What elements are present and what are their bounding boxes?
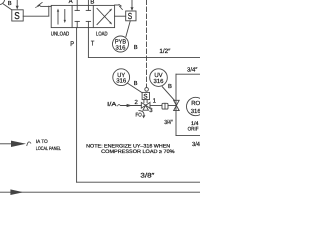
break squiggle (118, 104, 121, 105)
svg-text:B: B (90, 0, 94, 5)
3-way valve left triangle (141, 102, 145, 108)
block valve top triangle (174, 100, 180, 105)
instrument bubble top-left (cut off) (0, 0, 5, 5)
wire S1 to valve (23, 15, 49, 17)
instrument bubble RO-316 (187, 97, 205, 115)
wire UY to solenoid S3 (127, 83, 142, 93)
svg-text:3/4″: 3/4″ (187, 67, 198, 74)
svg-text:B: B (134, 45, 138, 51)
svg-text:RO: RO (191, 100, 200, 107)
center stub top-right (87, 5, 89, 10)
FO fail arrow arc (139, 111, 144, 116)
instrument bubble UV-316 (150, 69, 168, 87)
electric signal squiggle right (119, 4, 122, 9)
IA arrow (11, 141, 26, 147)
arrowhead down (16, 6, 19, 10)
break squiggle (27, 142, 31, 146)
svg-text:316: 316 (116, 44, 127, 51)
svg-text:3/4: 3/4 (192, 141, 200, 148)
svg-text:UV: UV (154, 72, 162, 79)
coupling / union (162, 103, 168, 109)
svg-text:1/2″: 1/2″ (159, 48, 171, 55)
wire valve to coupling (150, 105, 162, 107)
wire bubble to solenoid S left (3, 4, 12, 10)
svg-text:3/4″: 3/4″ (164, 119, 173, 126)
svg-text:2: 2 (135, 99, 139, 106)
svg-text:COMPRESSOR LOAD ≥ 70%: COMPRESSOR LOAD ≥ 70% (101, 149, 175, 155)
svg-text:1: 1 (153, 98, 157, 105)
solenoid S2 box (126, 11, 136, 21)
svg-text:3/8″: 3/8″ (140, 172, 155, 179)
svg-text:B: B (134, 81, 138, 87)
svg-text:I/A: I/A (107, 101, 116, 108)
svg-text:T: T (91, 41, 95, 48)
svg-text:316: 316 (191, 108, 200, 115)
bottom header line (0, 191, 200, 193)
3/8 pipe horizontal (77, 181, 200, 183)
svg-text:UNLOAD: UNLOAD (51, 31, 69, 37)
instrument bubble UY-316 (113, 69, 130, 86)
wire UV to block valve (162, 87, 175, 101)
instrument bubble PYB-316 (113, 36, 129, 52)
bottom header arrow (10, 189, 23, 195)
unload up-arrow (57, 11, 59, 25)
T pipe down (87, 28, 89, 58)
svg-text:A: A (69, 0, 73, 5)
svg-text:IA TO: IA TO (36, 139, 48, 145)
solenoid S1 box (12, 10, 23, 21)
svg-text:S: S (14, 11, 20, 22)
divider 1 (71, 5, 73, 27)
wire S2 to PYB bubble (126, 21, 130, 37)
signal line into solenoid S left (16, 0, 18, 6)
orifice box left edge (175, 74, 177, 135)
svg-text:ORIF: ORIF (188, 126, 199, 132)
wire valve to solenoid S2 (115, 15, 126, 17)
center stub bottom-right (87, 21, 89, 27)
svg-text:B: B (8, 1, 12, 7)
svg-text:S: S (128, 11, 132, 21)
center stub top-left (76, 5, 78, 10)
junction bubble (145, 88, 149, 92)
orifice box top edge (176, 73, 200, 75)
svg-text:3: 3 (149, 107, 153, 114)
3-way valve bottom triangle (143, 105, 149, 110)
center stub bottom-left (76, 21, 78, 27)
port A line (76, 0, 78, 5)
orifice box bottom edge (176, 135, 200, 137)
port B line (87, 0, 89, 5)
svg-text:P: P (70, 41, 74, 48)
load X arrow 2 (97, 8, 111, 22)
svg-text:LOCAL PANEL: LOCAL PANEL (36, 146, 61, 152)
wire coupling to block valve (168, 105, 176, 107)
dashed signal line (146, 0, 148, 87)
unload down-arrow (64, 10, 66, 22)
I/A arrowhead (127, 104, 133, 107)
signal line into solenoid S2 (131, 0, 133, 8)
I/A signal line (121, 105, 142, 107)
svg-text:PYB: PYB (115, 38, 126, 45)
3-way valve right triangle (146, 102, 150, 108)
valve V1 body (51, 5, 114, 27)
pilot bar left (48, 6, 50, 16)
svg-text:LOAD: LOAD (96, 31, 108, 37)
solenoid S3 box (142, 92, 149, 99)
1/2 header line (88, 56, 200, 58)
block valve bottom triangle (174, 105, 180, 110)
electric signal squiggle left (36, 2, 43, 7)
link S3 to valve left (143, 100, 145, 103)
arrowhead down (131, 7, 134, 11)
IA signal line (0, 143, 12, 145)
svg-text:B: B (168, 84, 172, 90)
svg-text:FO: FO (136, 113, 142, 119)
pilot line right (115, 4, 120, 6)
divider 2 (92, 5, 94, 27)
link S3 to valve right (146, 100, 148, 103)
P pipe down (76, 28, 78, 183)
load X arrow 1 (97, 10, 111, 24)
pilot line left (41, 5, 52, 7)
svg-text:316: 316 (154, 78, 165, 85)
svg-text:316: 316 (116, 78, 127, 85)
